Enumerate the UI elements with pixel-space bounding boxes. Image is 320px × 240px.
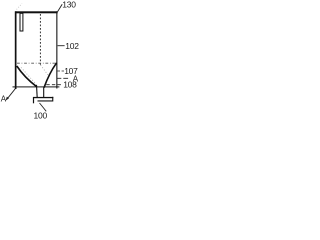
junction dash-dot line bbox=[17, 62, 56, 64]
leader to 130 bbox=[58, 4, 63, 11]
bottom rim line bbox=[13, 86, 60, 87]
leader to A right (long dashes) bbox=[57, 77, 70, 79]
left wall 102 region bbox=[15, 11, 17, 89]
svg-text:100: 100 bbox=[34, 110, 48, 120]
svg-text:A: A bbox=[1, 94, 7, 103]
svg-text:130: 130 bbox=[62, 0, 76, 10]
neck left line bbox=[36, 85, 39, 98]
neck right line bbox=[43, 88, 45, 98]
leader to 102 bbox=[58, 45, 65, 47]
leader to 100 bbox=[40, 103, 47, 111]
inner dotted line right bbox=[41, 65, 49, 76]
funnel left wall (bold curve) bbox=[17, 66, 37, 87]
funnel right wall (bold curve) bbox=[44, 63, 57, 88]
center dashed line bbox=[39, 14, 41, 65]
flange bottom line bbox=[38, 100, 53, 101]
leader to 107 (dashed) bbox=[57, 70, 64, 72]
section arrow A left bbox=[6, 89, 16, 101]
faint diagonal tick above top-left corner bbox=[17, 4, 23, 10]
svg-text:108: 108 bbox=[63, 79, 77, 89]
inner dotted line left bbox=[21, 68, 36, 85]
leader to 108 (dashed) bbox=[46, 84, 62, 86]
top wall (bold) bbox=[15, 11, 58, 13]
flange left cap bbox=[33, 97, 34, 103]
right wall bbox=[56, 11, 57, 88]
svg-text:102: 102 bbox=[65, 41, 79, 51]
inlet dip tube bbox=[20, 13, 23, 31]
flange right cap bbox=[52, 97, 53, 102]
flange top line bbox=[33, 97, 53, 98]
